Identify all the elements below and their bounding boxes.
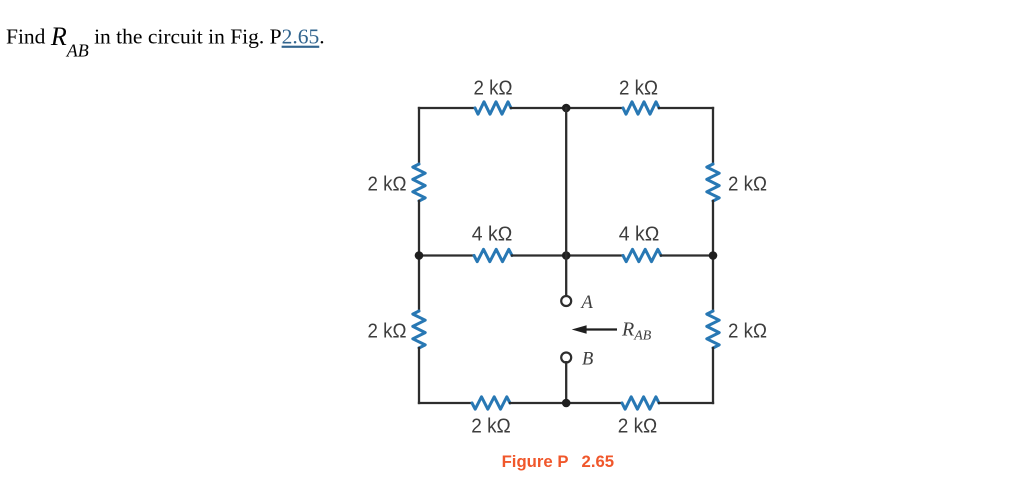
svg-text:2 kΩ: 2 kΩ	[471, 416, 511, 438]
wire: left column upper	[418, 108, 420, 164]
wire: right column upper	[712, 108, 714, 164]
wire: center column to terminal A	[565, 256, 567, 297]
resistor R9 2 kΩ (bottom-left)	[472, 397, 510, 409]
wire: mid-center node to R8	[566, 254, 623, 256]
wire: R1 to top-center node	[511, 107, 566, 109]
terminal A (open circle)	[561, 296, 571, 306]
arrow for RAB (pointing left)	[572, 325, 617, 334]
wire: left column lower	[418, 348, 420, 403]
wire: R2 to top-right corner	[659, 107, 713, 109]
wire: right column middle	[712, 201, 714, 311]
svg-text:2 kΩ: 2 kΩ	[728, 173, 767, 195]
wire: bottom-left corner to R9	[419, 402, 472, 404]
terminal B (open circle)	[561, 353, 571, 363]
svg-text:2 kΩ: 2 kΩ	[728, 320, 767, 342]
svg-text:2 kΩ: 2 kΩ	[368, 320, 407, 342]
svg-text:4 kΩ: 4 kΩ	[472, 224, 513, 246]
node junction (mid-right)	[709, 251, 718, 260]
wire: top-left corner to R1	[419, 107, 475, 109]
resistor R3 2 kΩ (left-upper)	[413, 164, 425, 201]
wire: bottom-center node to R10	[566, 402, 622, 404]
wire: mid-left node to R7	[419, 254, 474, 256]
resistor R7 4 kΩ (mid-left)	[474, 249, 512, 261]
wire: top-center node to R2	[566, 107, 623, 109]
wire: R10 to bottom-right corner	[659, 402, 713, 404]
svg-text:B: B	[582, 350, 593, 370]
node junction (top-center)	[562, 104, 571, 113]
wire: R7 to mid-center node	[512, 254, 566, 256]
svg-text:RAB: RAB	[621, 319, 651, 343]
svg-text:2 kΩ: 2 kΩ	[618, 416, 658, 438]
wire: center column upper	[565, 108, 567, 256]
svg-text:4 kΩ: 4 kΩ	[619, 224, 660, 246]
wire: R9 to bottom-center node	[510, 402, 566, 404]
resistor R1 2 kΩ (top-left)	[475, 102, 511, 114]
wire: left column middle	[418, 201, 420, 311]
svg-text:2 kΩ: 2 kΩ	[368, 173, 407, 195]
wire: terminal B to bottom node	[565, 362, 567, 403]
wire: R8 to mid-right node	[661, 254, 713, 256]
resistor R10 2 kΩ (bottom-right)	[622, 397, 659, 409]
svg-text:2 kΩ: 2 kΩ	[474, 78, 513, 100]
svg-text:Figure P 2.65: Figure P 2.65	[502, 452, 614, 471]
node junction (mid-left)	[415, 251, 424, 260]
resistor R5 2 kΩ (right-upper)	[707, 164, 719, 201]
svg-text:A: A	[580, 293, 594, 313]
wire: right column lower	[712, 348, 714, 403]
svg-text:Find RAB in the circuit in Fig: Find RAB in the circuit in Fig. P2.65.	[6, 22, 325, 61]
svg-text:2 kΩ: 2 kΩ	[619, 78, 658, 100]
resistor R4 2 kΩ (left-lower)	[413, 311, 425, 348]
resistor R8 4 kΩ (mid-right)	[623, 249, 661, 261]
node junction (mid-center)	[562, 251, 571, 260]
resistor R6 2 kΩ (right-lower)	[707, 311, 719, 348]
resistor R2 2 kΩ (top-right)	[623, 102, 659, 114]
node junction (bottom-center)	[562, 399, 571, 408]
